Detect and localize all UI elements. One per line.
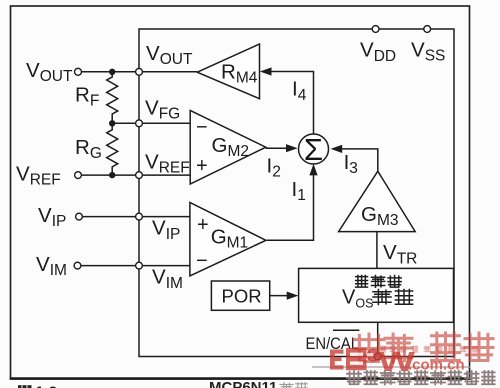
svg-text:POR: POR [222, 285, 262, 306]
svg-text:−: − [196, 117, 208, 139]
svg-text:VREF: VREF [145, 150, 190, 176]
svg-text:RG: RG [75, 136, 102, 162]
svg-text:VIM: VIM [36, 253, 67, 279]
svg-text:VTR: VTR [383, 241, 417, 267]
svg-text:VIP: VIP [152, 217, 180, 243]
svg-text:1.2: 1.2 [35, 385, 57, 388]
svg-text:VDD: VDD [360, 39, 396, 65]
svg-text:VREF: VREF [16, 162, 61, 188]
svg-text:VOUT: VOUT [26, 59, 73, 85]
svg-text:VIP: VIP [38, 204, 66, 230]
svg-text:Σ: Σ [304, 132, 323, 167]
svg-text:I2: I2 [267, 154, 281, 180]
svg-text:RF: RF [75, 84, 99, 110]
svg-text:VOUT: VOUT [146, 42, 193, 68]
svg-text:+: + [197, 214, 209, 236]
svg-text:MCP6N11: MCP6N11 [209, 379, 277, 388]
svg-text:VFG: VFG [145, 97, 180, 123]
svg-text:I4: I4 [292, 78, 307, 104]
svg-text:+: + [196, 155, 208, 177]
svg-text:I1: I1 [292, 178, 306, 204]
svg-text:VIM: VIM [152, 266, 183, 292]
svg-text:VSS: VSS [411, 39, 445, 65]
svg-text:−: − [196, 250, 208, 272]
svg-text:I3: I3 [344, 151, 358, 177]
